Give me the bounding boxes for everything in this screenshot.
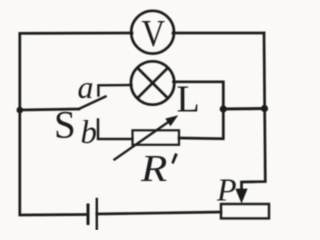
svg-text:b: b	[81, 115, 98, 151]
svg-text:L: L	[177, 79, 200, 121]
svg-text:P: P	[216, 172, 237, 208]
svg-text:S: S	[54, 104, 76, 147]
svg-text:R: R	[140, 148, 167, 190]
svg-text:V: V	[142, 13, 166, 55]
svg-text:a: a	[78, 69, 94, 105]
